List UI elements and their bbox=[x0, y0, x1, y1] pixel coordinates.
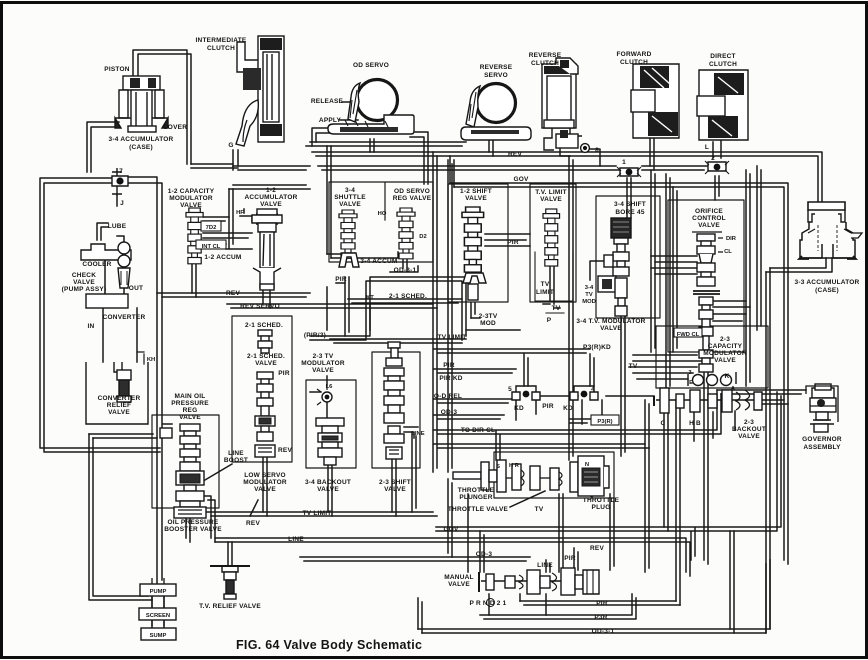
wire gov line long bbox=[450, 183, 788, 564]
wire piston left to node 7 bbox=[87, 122, 119, 172]
svg-text:TO DIR CL: TO DIR CL bbox=[461, 427, 495, 434]
svg-text:2-3 SHIFT: 2-3 SHIFT bbox=[379, 479, 411, 486]
manual valve bbox=[479, 568, 599, 595]
svg-text:PIR KD: PIR KD bbox=[439, 375, 462, 382]
wire gov left riser bbox=[450, 156, 454, 187]
svg-text:DIRECT: DIRECT bbox=[710, 53, 736, 60]
svg-text:1-2 CAPACITY: 1-2 CAPACITY bbox=[168, 188, 215, 195]
svg-text:BORE 45: BORE 45 bbox=[615, 209, 645, 216]
svg-text:P3(R): P3(R) bbox=[597, 419, 612, 425]
svg-text:PRESSURE: PRESSURE bbox=[171, 400, 209, 407]
svg-text:VALVE: VALVE bbox=[698, 222, 720, 229]
wire check valve to converter bbox=[123, 288, 125, 294]
svg-text:2-1 SCHED.: 2-1 SCHED. bbox=[247, 353, 285, 360]
svg-text:OUT: OUT bbox=[129, 285, 143, 292]
svg-text:8: 8 bbox=[595, 147, 599, 154]
wire shuttle column pair bbox=[327, 146, 331, 258]
svg-text:(PIR/3): (PIR/3) bbox=[304, 332, 326, 339]
svg-text:REG: REG bbox=[183, 407, 198, 414]
svg-text:S: S bbox=[496, 464, 500, 470]
wire right mesh horizontals bbox=[629, 355, 701, 379]
svg-text:LINE: LINE bbox=[411, 431, 424, 437]
wire 3-4 accum link bbox=[327, 252, 398, 258]
svg-text:ACCUMULATOR: ACCUMULATOR bbox=[244, 194, 297, 201]
svg-text:1: 1 bbox=[622, 159, 626, 166]
wire lube drop bbox=[97, 223, 108, 240]
wire node 1 down to 3-4 shift bore bbox=[627, 178, 631, 218]
wire tv limit bottom pair bbox=[207, 512, 437, 516]
wire loop top link bbox=[89, 434, 157, 438]
svg-text:LINE: LINE bbox=[228, 450, 244, 457]
svg-text:INTERMEDIATE: INTERMEDIATE bbox=[196, 37, 247, 44]
svg-text:2-1 SCHED.: 2-1 SCHED. bbox=[389, 293, 427, 300]
svg-text:TV LIMIT: TV LIMIT bbox=[303, 510, 332, 517]
wire 1-2 shift to tv limit links bbox=[485, 234, 530, 246]
valve TV limit bbox=[543, 209, 560, 266]
svg-text:CLUTCH: CLUTCH bbox=[620, 59, 648, 66]
svg-text:K: K bbox=[725, 373, 730, 380]
svg-text:PIR: PIR bbox=[507, 239, 519, 246]
svg-text:1-2: 1-2 bbox=[266, 187, 276, 194]
wire L6 stub bbox=[310, 376, 327, 418]
svg-text:CONVERTER: CONVERTER bbox=[98, 395, 141, 402]
wire node 7 left run bbox=[40, 178, 160, 452]
svg-text:3-4 T.V. MODULATOR: 3-4 T.V. MODULATOR bbox=[576, 318, 645, 325]
wire G vertical from intermediate clutch bbox=[233, 150, 238, 170]
wire governor left link bbox=[717, 390, 806, 394]
main oil pressure reg valve + oil pressure booster valve bbox=[160, 424, 206, 518]
svg-text:CONTROL: CONTROL bbox=[692, 215, 726, 222]
svg-text:PIR: PIR bbox=[443, 362, 455, 369]
svg-text:REVERSE: REVERSE bbox=[529, 52, 562, 59]
wire 3-4 backout stem bbox=[328, 465, 332, 516]
wire kt drop bbox=[369, 303, 371, 330]
svg-text:P3R: P3R bbox=[594, 614, 607, 621]
screen box bbox=[139, 602, 176, 626]
wire node 5 and 4 risers bbox=[524, 354, 594, 386]
wire od-3-1 left riser bbox=[418, 598, 422, 633]
svg-text:BACKOUT: BACKOUT bbox=[732, 426, 766, 433]
svg-text:MODULATOR: MODULATOR bbox=[243, 479, 287, 486]
wire rev leader booster bbox=[250, 500, 258, 516]
wire booster out right bbox=[204, 496, 215, 542]
wire 1-2 shift bottom stem bbox=[471, 303, 475, 318]
svg-text:T.V. LIMIT: T.V. LIMIT bbox=[535, 189, 567, 196]
wire shuttle bottom stem bbox=[345, 277, 349, 336]
svg-text:VALVE: VALVE bbox=[108, 409, 130, 416]
wire tv limit wire line bbox=[330, 339, 466, 343]
svg-text:CAPACITY: CAPACITY bbox=[708, 343, 743, 350]
valve 2-3 backout (horizontal train) bbox=[654, 388, 762, 413]
svg-text:LUBE: LUBE bbox=[108, 223, 127, 230]
wire bore outline tv limit bbox=[530, 184, 576, 302]
wire 2-3 backout port stubs bbox=[664, 411, 735, 531]
wire pump screen sump stubs bbox=[152, 596, 164, 628]
wire cooler to check valve bbox=[105, 236, 124, 294]
wire hf link to accumulator bbox=[240, 209, 252, 222]
svg-text:VALVE: VALVE bbox=[384, 486, 406, 493]
wire line boost leader bbox=[205, 464, 232, 480]
svg-text:(PUMP ASSY): (PUMP ASSY) bbox=[62, 286, 107, 293]
wire left riser below throttle bbox=[448, 479, 452, 557]
svg-text:REVERSE: REVERSE bbox=[480, 64, 513, 71]
svg-text:OD-3: OD-3 bbox=[441, 409, 458, 416]
svg-text:MANUAL: MANUAL bbox=[444, 574, 473, 581]
svg-text:OD-3: OD-3 bbox=[476, 551, 493, 558]
svg-text:RELIEF: RELIEF bbox=[107, 402, 131, 409]
svg-text:4: 4 bbox=[591, 386, 595, 393]
wire orifice right links bbox=[713, 301, 750, 321]
valve 2-1 sched. valve (lower spool) + low servo modulator bbox=[255, 372, 275, 457]
svg-text:REV: REV bbox=[246, 520, 260, 527]
wire 3-3 accumulator bottom pipe bbox=[766, 258, 832, 272]
svg-text:C: C bbox=[661, 420, 666, 427]
node 4 check ball bbox=[570, 386, 598, 400]
svg-text:FORWARD: FORWARD bbox=[616, 51, 651, 58]
node L6 check ball bbox=[317, 385, 332, 405]
wire 1-2 cap mod riser pair bbox=[229, 189, 233, 248]
svg-text:REV: REV bbox=[508, 151, 522, 158]
svg-text:VALVE: VALVE bbox=[179, 414, 201, 421]
svg-text:CLUTCH: CLUTCH bbox=[531, 60, 559, 67]
svg-text:BOOST: BOOST bbox=[224, 457, 248, 464]
wire relief box to pump loop bbox=[89, 434, 152, 600]
svg-text:CL: CL bbox=[724, 249, 732, 255]
wire bore outline tv limit inner bbox=[535, 252, 573, 301]
svg-text:HO: HO bbox=[378, 211, 387, 217]
wire manual valve top stubs bbox=[546, 548, 578, 572]
node 7/J check ball bbox=[112, 168, 128, 196]
svg-text:PIR: PIR bbox=[278, 370, 290, 377]
wire od-3-1 bottom line bbox=[418, 560, 770, 633]
reverse servo bbox=[461, 84, 531, 141]
svg-text:TV: TV bbox=[541, 281, 550, 288]
label int cl (boxed) bbox=[196, 240, 226, 249]
svg-text:THROTTLE: THROTTLE bbox=[458, 487, 495, 494]
wire node 7 right elbow down bbox=[128, 177, 172, 584]
svg-text:HF: HF bbox=[236, 210, 244, 216]
wire 2-3 tv mod label box bbox=[310, 277, 466, 340]
wire top feeder pair under servos bbox=[306, 142, 466, 146]
valve 1-2 shift bbox=[462, 207, 486, 300]
wire gov bottom line bbox=[436, 392, 781, 560]
svg-text:VALVE: VALVE bbox=[317, 486, 339, 493]
svg-text:VALVE: VALVE bbox=[339, 201, 361, 208]
wire tv underline bbox=[546, 312, 564, 314]
svg-text:OD-3-1: OD-3-1 bbox=[592, 628, 615, 635]
svg-text:CLUTCH: CLUTCH bbox=[709, 61, 737, 68]
svg-text:VALVE: VALVE bbox=[255, 360, 277, 367]
wire reverse servo base drop bbox=[489, 141, 493, 156]
svg-text:MAIN OIL: MAIN OIL bbox=[174, 393, 205, 400]
wire od servo apply elbows bbox=[312, 128, 333, 146]
wire 1-2 cap mod bottom stem bbox=[192, 262, 196, 297]
wire manual valve left feeders bbox=[480, 531, 484, 572]
svg-text:REV SERVO: REV SERVO bbox=[240, 303, 280, 310]
svg-text:COOLER: COOLER bbox=[82, 261, 111, 268]
svg-text:(CASE): (CASE) bbox=[129, 144, 153, 151]
wire od servo base right link bbox=[410, 132, 428, 184]
svg-text:IN: IN bbox=[88, 323, 95, 330]
svg-text:TV: TV bbox=[585, 292, 593, 298]
wire piston top loop bbox=[133, 50, 191, 164]
svg-text:2-3 TV: 2-3 TV bbox=[313, 353, 334, 360]
svg-text:H B: H B bbox=[689, 420, 701, 427]
svg-text:2-3TV: 2-3TV bbox=[479, 313, 498, 320]
svg-text:3-4: 3-4 bbox=[585, 285, 594, 291]
wire p3(r)kd line bbox=[434, 349, 590, 353]
OD servo bbox=[328, 80, 414, 135]
svg-text:KD: KD bbox=[514, 405, 524, 412]
svg-text:TV: TV bbox=[535, 506, 544, 513]
svg-text:VALVE: VALVE bbox=[448, 581, 470, 588]
wire p3r bottom line bbox=[480, 594, 636, 619]
valve 2-1 sched (upper small spool) bbox=[258, 330, 272, 353]
wire od rel line bbox=[434, 399, 512, 403]
wire kd drops bbox=[516, 400, 602, 424]
svg-text:THROTTLE VALVE: THROTTLE VALVE bbox=[448, 506, 509, 513]
wire pir row to shuttle bbox=[327, 283, 345, 330]
node 1 check ball bbox=[617, 167, 641, 177]
svg-text:3-4: 3-4 bbox=[345, 187, 355, 194]
wire 2-3 backout right link bbox=[763, 400, 788, 404]
svg-text:GOV: GOV bbox=[513, 176, 529, 183]
wire manual valve right riser pair bbox=[645, 400, 649, 572]
svg-text:DIR: DIR bbox=[726, 236, 737, 242]
svg-text:THROTTLE: THROTTLE bbox=[583, 497, 620, 504]
svg-text:REV: REV bbox=[278, 447, 292, 454]
svg-text:PLUNGER: PLUNGER bbox=[459, 494, 492, 501]
svg-text:VALVE: VALVE bbox=[600, 325, 622, 332]
svg-text:VALVE: VALVE bbox=[738, 433, 760, 440]
svg-text:3-4 BACKOUT: 3-4 BACKOUT bbox=[305, 479, 351, 486]
wire rev line long bbox=[312, 152, 822, 202]
svg-text:SERVO: SERVO bbox=[484, 72, 508, 79]
wire 1-2 cap mod top link bbox=[229, 185, 310, 189]
svg-text:MOD: MOD bbox=[480, 320, 496, 327]
converter relief valve bbox=[86, 362, 148, 424]
wire bore outline 1-2 shift bbox=[448, 184, 508, 302]
wire bore outline 3-4 shift bbox=[596, 196, 660, 318]
wire orifice right riser bbox=[746, 170, 750, 386]
T.V. relief valve bbox=[210, 566, 250, 599]
wire orifice left links bbox=[651, 256, 697, 274]
svg-text:VALVE: VALVE bbox=[540, 196, 562, 203]
svg-text:1-2 SHIFT: 1-2 SHIFT bbox=[460, 188, 492, 195]
forward clutch bbox=[631, 64, 679, 138]
wire throttle valve leader bbox=[510, 491, 545, 507]
svg-text:LOW SERVO: LOW SERVO bbox=[244, 472, 286, 479]
wire right riser pair from node 2 bbox=[757, 166, 761, 330]
wire converter down to relief box bbox=[103, 308, 137, 362]
pump box bbox=[140, 578, 176, 602]
svg-text:P: P bbox=[547, 317, 552, 324]
svg-text:OD SERVO: OD SERVO bbox=[353, 62, 389, 69]
svg-text:L6: L6 bbox=[326, 384, 334, 390]
reverse clutch bbox=[542, 58, 589, 152]
wire reverse clutch long drop bbox=[569, 156, 573, 460]
wire G elbow to shuttle column bbox=[191, 164, 310, 170]
svg-text:COVER: COVER bbox=[163, 124, 187, 131]
wire kh tick bbox=[137, 352, 144, 364]
svg-text:APPLY: APPLY bbox=[319, 117, 342, 124]
wire node J stem bbox=[116, 196, 118, 206]
3-3 accumulator (case) bbox=[799, 202, 862, 259]
svg-text:GOVERNOR: GOVERNOR bbox=[802, 436, 842, 443]
svg-text:LINE: LINE bbox=[288, 536, 304, 543]
label fwd cl boxed bbox=[674, 328, 702, 337]
label 7d2 (boxed) bbox=[201, 221, 221, 231]
wire main line long bbox=[215, 538, 690, 576]
wire central riser pair bbox=[433, 152, 437, 472]
svg-text:VALVE: VALVE bbox=[73, 279, 95, 286]
svg-text:PIR: PIR bbox=[335, 276, 347, 283]
svg-text:CONVERTER: CONVERTER bbox=[103, 314, 146, 321]
valve 1-2 accumulator bbox=[252, 209, 282, 290]
svg-text:D2: D2 bbox=[419, 234, 426, 240]
wire forward clutch drop to node 1 bbox=[650, 136, 654, 170]
svg-text:PLUG: PLUG bbox=[592, 504, 611, 511]
throttle plunger / throttle valve / throttle plug train bbox=[453, 456, 609, 496]
svg-text:PISTON: PISTON bbox=[104, 66, 129, 73]
wire throttle plug leader bbox=[586, 492, 592, 497]
svg-text:CLUTCH: CLUTCH bbox=[207, 45, 235, 52]
svg-text:FWD CL: FWD CL bbox=[677, 332, 700, 338]
wire od servo base drop bbox=[370, 139, 374, 152]
wire bore outline 2-1 sched low servo bbox=[232, 316, 292, 462]
svg-text:MOD: MOD bbox=[582, 299, 596, 305]
wire gov riser mid pair bbox=[448, 160, 452, 472]
piston / 3-4 accumulator (case) bbox=[115, 76, 168, 132]
wire mesh pair mid bbox=[434, 444, 649, 448]
svg-text:GOV: GOV bbox=[443, 526, 459, 533]
wire booster down feed bbox=[186, 518, 190, 542]
svg-text:OIL PRESSURE: OIL PRESSURE bbox=[168, 519, 219, 526]
svg-text:TV LIMIT: TV LIMIT bbox=[438, 334, 467, 341]
svg-text:7D2: 7D2 bbox=[206, 225, 217, 231]
wire manual valve bottom stubs bbox=[489, 594, 546, 615]
svg-text:3-4 ACCUM: 3-4 ACCUM bbox=[360, 258, 397, 265]
svg-text:MODULATOR: MODULATOR bbox=[169, 195, 213, 202]
governor assembly bbox=[806, 384, 838, 432]
wire bore outline 2-3 capacity bbox=[656, 326, 768, 388]
wire p3(r) link bbox=[570, 419, 591, 423]
svg-text:OD-3-1: OD-3-1 bbox=[394, 267, 417, 274]
svg-text:3-4 SHIFT: 3-4 SHIFT bbox=[614, 201, 646, 208]
valve 3-4 backout bbox=[316, 418, 344, 465]
svg-text:REV: REV bbox=[590, 545, 604, 552]
wire node row link bbox=[540, 395, 654, 397]
svg-text:PIR: PIR bbox=[596, 600, 608, 607]
svg-text:3-3 ACCUMULATOR: 3-3 ACCUMULATOR bbox=[795, 279, 860, 286]
wire od-3 mid line bbox=[434, 415, 504, 419]
svg-text:PIR: PIR bbox=[564, 555, 576, 562]
svg-text:T.V. RELIEF VALVE: T.V. RELIEF VALVE bbox=[199, 603, 261, 610]
svg-text:VALVE: VALVE bbox=[260, 201, 282, 208]
wire reverse clutch bottom to node 8 bbox=[560, 148, 600, 166]
svg-text:BOOSTER VALVE: BOOSTER VALVE bbox=[164, 526, 222, 533]
wire tv relief riser bbox=[228, 542, 232, 566]
svg-text:VALVE: VALVE bbox=[254, 486, 276, 493]
svg-text:KH: KH bbox=[147, 357, 155, 363]
svg-text:3-4 ACCUMULATOR: 3-4 ACCUMULATOR bbox=[109, 136, 174, 143]
wire bore outline orifice bbox=[668, 200, 744, 352]
wire od reg bottom to od-3-1 bbox=[390, 258, 418, 272]
svg-text:H R: H R bbox=[509, 463, 520, 469]
wire line to nodes 1 and 2 bbox=[318, 166, 708, 170]
valve 3-4 shift bore 45 bbox=[598, 218, 631, 316]
svg-text:VALVE: VALVE bbox=[714, 357, 736, 364]
svg-text:E: E bbox=[689, 380, 693, 386]
svg-text:L: L bbox=[705, 144, 709, 151]
wire 2-3 shift right link bbox=[404, 427, 418, 438]
svg-text:P3(R)KD: P3(R)KD bbox=[583, 344, 611, 351]
svg-text:OD SERVO: OD SERVO bbox=[394, 188, 430, 195]
svg-text:REV: REV bbox=[226, 290, 240, 297]
wire to dir cl line bbox=[434, 390, 721, 434]
wire mid-right drop pair bbox=[676, 400, 680, 605]
svg-text:KD: KD bbox=[563, 405, 573, 412]
svg-text:RELEASE: RELEASE bbox=[311, 98, 344, 105]
svg-text:2-3: 2-3 bbox=[744, 419, 754, 426]
svg-text:TV: TV bbox=[629, 363, 638, 370]
svg-text:LINE: LINE bbox=[537, 562, 553, 569]
wire low servo bottom stem bbox=[263, 457, 267, 516]
wire orifice left riser bbox=[673, 187, 677, 352]
svg-text:7: 7 bbox=[119, 168, 123, 175]
wire bore outline 3-4 backout bbox=[306, 380, 356, 468]
svg-text:LIMIT: LIMIT bbox=[536, 289, 554, 296]
wire 3-4 shift bore mid links bbox=[590, 261, 613, 290]
wire L stub and direct clutch drop to node 2 bbox=[713, 138, 721, 200]
wire 2-1 sched line bbox=[348, 299, 462, 303]
svg-text:FIG. 64 Valve Body Schematic: FIG. 64 Valve Body Schematic bbox=[236, 638, 422, 652]
wire 3-4 tv mod drop pair bbox=[621, 316, 625, 456]
svg-text:MODULATOR: MODULATOR bbox=[301, 360, 345, 367]
svg-text:SCREEN: SCREEN bbox=[146, 613, 170, 619]
wire 2-3tv mod link bbox=[466, 318, 520, 330]
svg-text:ORIFICE: ORIFICE bbox=[695, 208, 723, 215]
cooler bbox=[81, 244, 131, 260]
wire pir mid line bbox=[434, 369, 516, 373]
svg-text:SUMP: SUMP bbox=[150, 633, 167, 639]
svg-text:PUMP: PUMP bbox=[150, 589, 167, 595]
valve 2-3 shift bbox=[384, 342, 404, 459]
svg-text:VALVE: VALVE bbox=[465, 195, 487, 202]
svg-text:J: J bbox=[120, 200, 124, 207]
wire 1-2 accumulator bottom drop bbox=[263, 290, 270, 308]
wire 2-3 shift bottom stem bbox=[392, 459, 396, 516]
svg-text:TV: TV bbox=[552, 305, 561, 312]
svg-text:CHECK: CHECK bbox=[72, 272, 96, 279]
svg-text:SHUTTLE: SHUTTLE bbox=[334, 194, 366, 201]
wire rev vertical manual bbox=[610, 494, 614, 570]
wire bore outline shuttle + od reg bbox=[329, 182, 433, 262]
svg-text:ASSEMBLY: ASSEMBLY bbox=[803, 444, 841, 451]
2-3 capacity modulator (small train) bbox=[688, 372, 736, 386]
wire right riser to od-3-1 bbox=[766, 268, 770, 633]
wire orifice bottom stem bbox=[704, 372, 708, 564]
wire 1-2 cap mod right links bbox=[203, 217, 252, 249]
label p3(r) boxed bbox=[591, 415, 619, 425]
svg-text:2-3: 2-3 bbox=[720, 336, 730, 343]
svg-text:(CASE): (CASE) bbox=[815, 287, 839, 294]
svg-text:VALVE: VALVE bbox=[180, 202, 202, 209]
wire bore outline 2-3 shift bbox=[372, 352, 420, 468]
svg-text:KT: KT bbox=[366, 295, 374, 301]
direct clutch bbox=[697, 70, 748, 140]
check valve (pump assy) bbox=[118, 242, 130, 288]
